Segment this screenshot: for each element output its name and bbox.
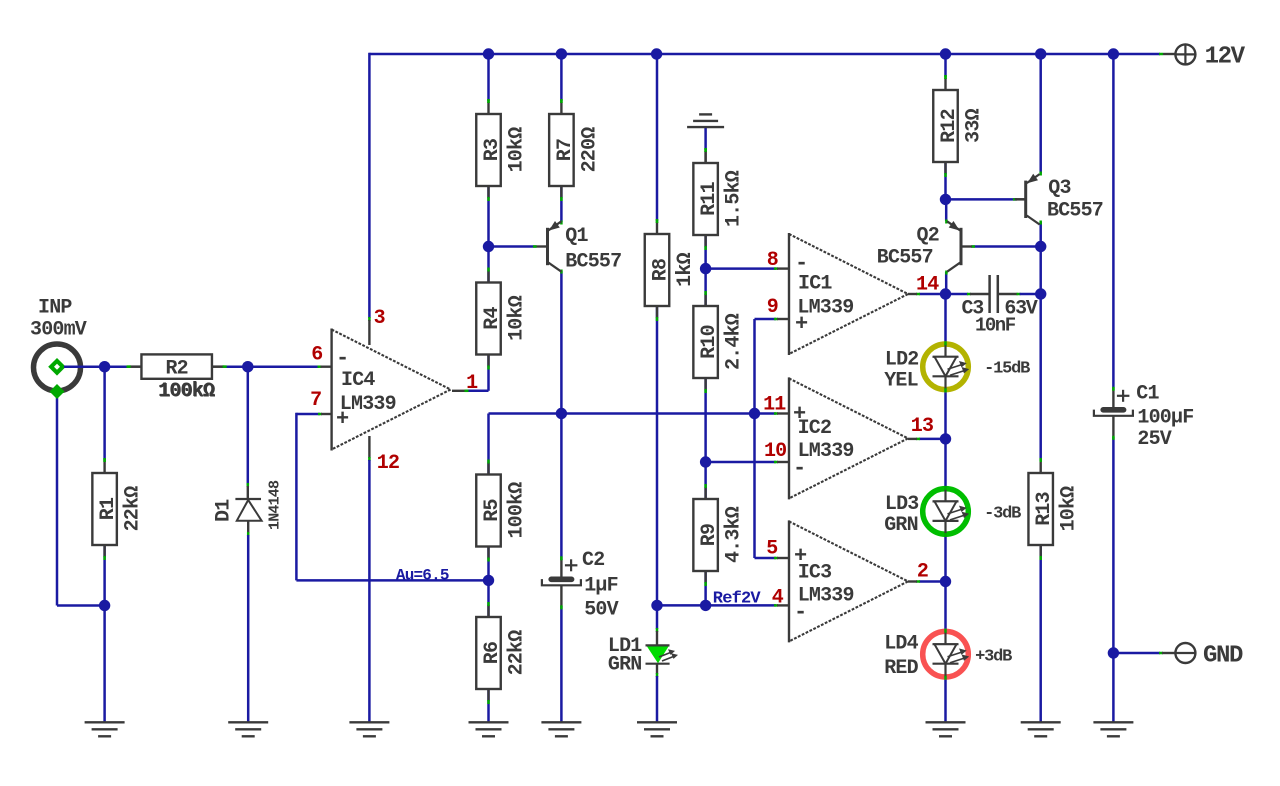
svg-text:10nF: 10nF <box>975 315 1016 337</box>
svg-text:1: 1 <box>466 372 478 395</box>
svg-text:-: - <box>795 251 807 276</box>
svg-text:LM339: LM339 <box>798 440 854 463</box>
svg-text:R1: R1 <box>97 497 120 520</box>
svg-text:3: 3 <box>374 307 385 330</box>
svg-text:4: 4 <box>772 586 784 609</box>
svg-text:8: 8 <box>767 249 778 272</box>
svg-text:2.4kΩ: 2.4kΩ <box>723 313 746 370</box>
svg-text:R4: R4 <box>481 307 504 330</box>
svg-text:11: 11 <box>763 394 786 417</box>
svg-text:Ref2V: Ref2V <box>713 590 762 609</box>
svg-text:10kΩ: 10kΩ <box>506 127 529 173</box>
svg-text:10kΩ: 10kΩ <box>506 295 529 341</box>
svg-text:25V: 25V <box>1137 428 1171 451</box>
svg-text:LD3: LD3 <box>885 493 919 516</box>
svg-text:R12: R12 <box>938 109 961 143</box>
svg-text:+: + <box>793 402 806 427</box>
svg-text:R11: R11 <box>698 181 721 215</box>
svg-text:BC557: BC557 <box>877 247 933 270</box>
svg-text:-3dB: -3dB <box>984 505 1021 524</box>
svg-text:14: 14 <box>916 274 939 297</box>
svg-text:1.5kΩ: 1.5kΩ <box>723 170 746 227</box>
svg-text:Q2: Q2 <box>917 225 939 248</box>
svg-text:R7: R7 <box>554 139 577 161</box>
svg-text:IC4: IC4 <box>341 369 375 392</box>
svg-text:+: + <box>795 312 808 337</box>
svg-text:50V: 50V <box>584 599 618 622</box>
svg-text:22kΩ: 22kΩ <box>122 486 145 532</box>
svg-text:D1: D1 <box>213 499 236 522</box>
svg-text:YEL: YEL <box>884 370 918 393</box>
svg-text:10: 10 <box>764 440 786 463</box>
svg-text:-: - <box>336 346 348 371</box>
svg-text:100µF: 100µF <box>1137 407 1193 430</box>
svg-text:12: 12 <box>377 452 399 475</box>
svg-text:100kΩ: 100kΩ <box>506 482 529 539</box>
svg-text:22kΩ: 22kΩ <box>506 630 529 676</box>
svg-text:1N4148: 1N4148 <box>267 480 284 530</box>
svg-text:Au=6.5: Au=6.5 <box>396 566 449 584</box>
svg-text:6: 6 <box>311 344 322 367</box>
svg-text:BC557: BC557 <box>1047 200 1103 223</box>
svg-text:2: 2 <box>917 560 928 583</box>
svg-text:R2: R2 <box>165 358 187 381</box>
svg-text:-: - <box>794 600 806 625</box>
svg-text:R6: R6 <box>481 642 504 664</box>
svg-text:Q3: Q3 <box>1048 177 1070 200</box>
svg-text:C2: C2 <box>582 549 604 572</box>
svg-text:+: + <box>336 407 349 432</box>
svg-text:GND: GND <box>1203 643 1243 670</box>
svg-text:5: 5 <box>766 537 777 560</box>
svg-text:100kΩ: 100kΩ <box>158 380 215 403</box>
svg-text:BC557: BC557 <box>565 251 621 274</box>
svg-text:12V: 12V <box>1205 44 1246 71</box>
svg-text:R3: R3 <box>481 139 504 161</box>
svg-text:7: 7 <box>310 389 321 412</box>
svg-text:R8: R8 <box>650 259 673 281</box>
svg-text:INP: INP <box>38 297 72 320</box>
svg-text:-15dB: -15dB <box>984 360 1030 379</box>
svg-text:300mV: 300mV <box>30 319 87 342</box>
svg-text:R5: R5 <box>481 499 504 521</box>
svg-text:33Ω: 33Ω <box>963 108 986 142</box>
svg-text:+: + <box>794 544 807 569</box>
svg-text:1kΩ: 1kΩ <box>674 252 697 286</box>
svg-text:LD2: LD2 <box>885 349 919 372</box>
svg-text:4.3kΩ: 4.3kΩ <box>723 506 746 563</box>
svg-text:10kΩ: 10kΩ <box>1058 486 1081 532</box>
svg-text:R10: R10 <box>698 325 721 359</box>
svg-text:GRN: GRN <box>608 654 642 677</box>
svg-text:Q1: Q1 <box>565 225 588 248</box>
svg-text:1µF: 1µF <box>584 575 618 598</box>
svg-text:220Ω: 220Ω <box>578 127 601 173</box>
svg-text:C1: C1 <box>1136 383 1159 406</box>
svg-text:9: 9 <box>767 296 778 319</box>
svg-text:13: 13 <box>911 415 933 438</box>
svg-text:LD4: LD4 <box>884 633 918 656</box>
svg-text:GRN: GRN <box>884 514 918 537</box>
svg-text:-: - <box>793 456 805 481</box>
svg-text:R13: R13 <box>1033 492 1056 526</box>
svg-text:R9: R9 <box>698 524 721 546</box>
svg-text:RED: RED <box>884 657 918 680</box>
svg-text:+3dB: +3dB <box>975 647 1012 666</box>
